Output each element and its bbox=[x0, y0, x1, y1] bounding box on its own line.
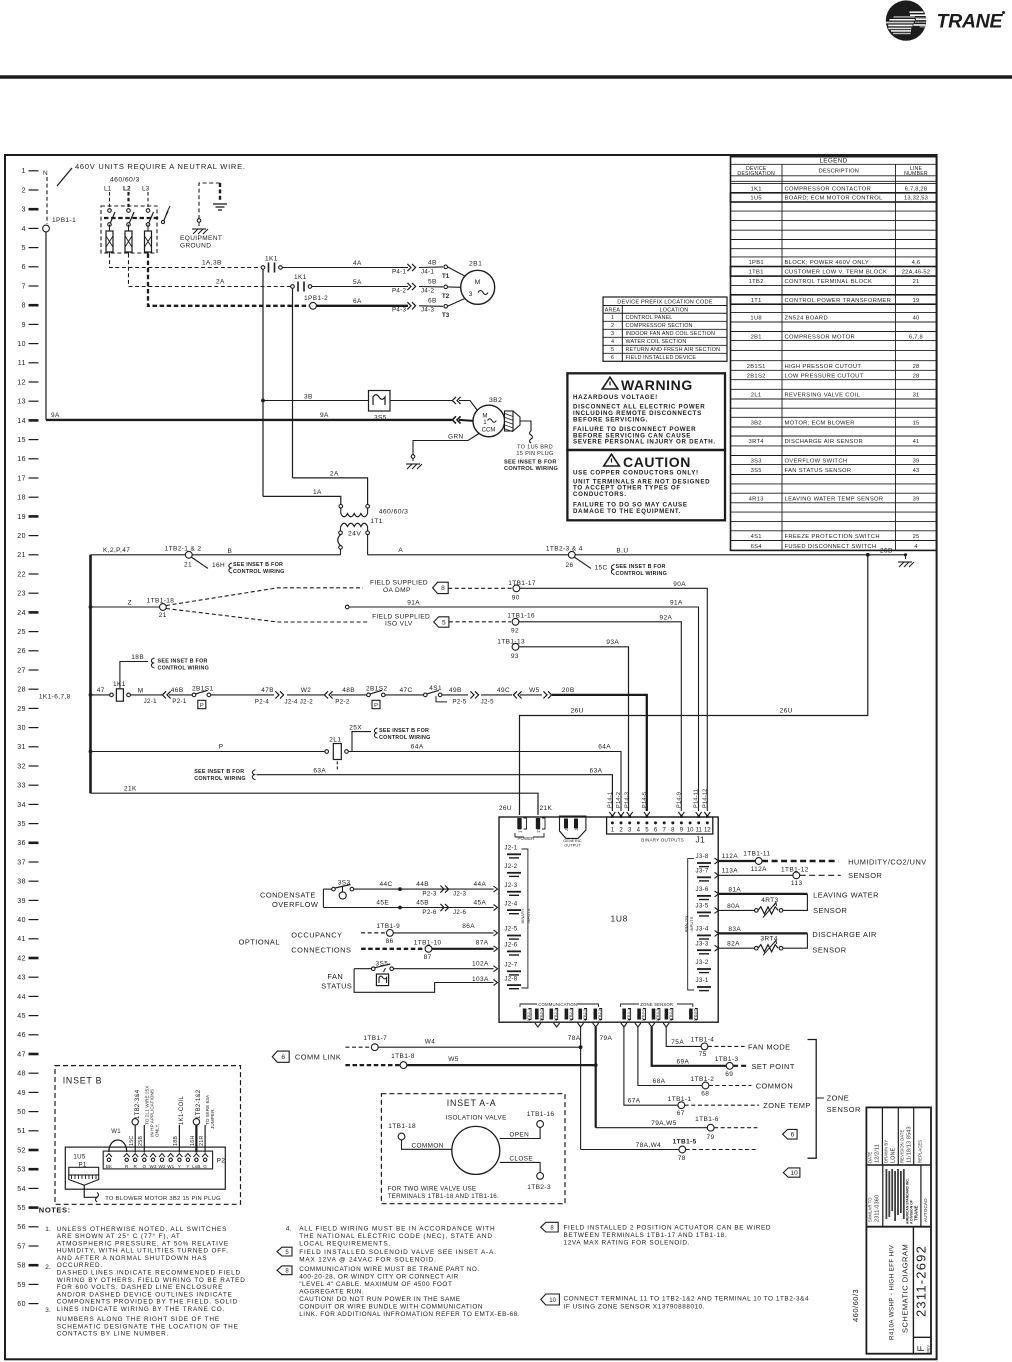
svg-text:INSET A-A: INSET A-A bbox=[447, 1098, 497, 1108]
svg-text:DRAWN BY: DRAWN BY bbox=[884, 1140, 889, 1163]
connector 1TB3-2 bbox=[637, 1009, 641, 1020]
svg-text:GROUND: GROUND bbox=[180, 243, 211, 250]
svg-text:B: B bbox=[228, 548, 233, 555]
svg-text:47: 47 bbox=[97, 687, 105, 694]
wire 18B to 1K1-COIL bbox=[178, 1125, 180, 1153]
svg-text:ISOLATION VALVE: ISOLATION VALVE bbox=[446, 1115, 507, 1122]
svg-text:1TB1-2: 1TB1-2 bbox=[518, 818, 523, 833]
svg-text:460/60/3: 460/60/3 bbox=[851, 1289, 860, 1322]
svg-text:41: 41 bbox=[17, 936, 26, 943]
svg-text:A DIVISION OF: A DIVISION OF bbox=[910, 1200, 914, 1224]
wire 91A bbox=[345, 605, 349, 609]
connector 1TB2-4 bbox=[565, 1009, 569, 1020]
svg-text:3S3: 3S3 bbox=[751, 458, 762, 464]
connector 1TB2-5 bbox=[578, 1009, 582, 1020]
svg-text:SEE INSET B FOR: SEE INSET B FOR bbox=[194, 769, 244, 775]
svg-text:J3-5: J3-5 bbox=[696, 903, 709, 910]
secondary breaker bbox=[338, 535, 341, 546]
svg-text:36: 36 bbox=[17, 840, 26, 847]
isolation valve circle bbox=[452, 1126, 500, 1174]
svg-text:87A: 87A bbox=[476, 939, 489, 946]
overflow switch 3S5 (blower) bbox=[369, 391, 391, 412]
inset A-A box bbox=[381, 1094, 565, 1204]
wire P bbox=[91, 751, 326, 753]
wire 103A to J2-8 bbox=[354, 969, 493, 993]
svg-text:SEVERE PERSONAL INJURY OR DEAT: SEVERE PERSONAL INJURY OR DEATH. bbox=[573, 439, 716, 446]
svg-text:TERMINALS 1TB1-18 AND 1TB1-16.: TERMINALS 1TB1-18 AND 1TB1-16. bbox=[388, 1193, 499, 1200]
junction 3B bbox=[261, 399, 265, 403]
svg-text:BK: BK bbox=[106, 1164, 113, 1169]
svg-text:5: 5 bbox=[22, 245, 26, 252]
svg-text:4: 4 bbox=[914, 544, 918, 550]
svg-text:LoB: LoB bbox=[192, 1164, 200, 1169]
svg-text:DESIGNATION: DESIGNATION bbox=[737, 171, 775, 177]
wire L1 bbox=[109, 192, 111, 207]
discharge air sensor 3RT4 bbox=[715, 930, 719, 936]
svg-text:44: 44 bbox=[17, 994, 26, 1001]
wire to blower plug bbox=[84, 1185, 97, 1197]
svg-text:10: 10 bbox=[687, 828, 694, 834]
svg-text:81A: 81A bbox=[728, 887, 741, 894]
linkage bbox=[104, 217, 160, 219]
svg-text:J3-4: J3-4 bbox=[696, 926, 709, 933]
svg-text:K,2,P,47: K,2,P,47 bbox=[103, 547, 130, 554]
svg-text:P14-2: P14-2 bbox=[616, 792, 622, 808]
svg-text:3B2: 3B2 bbox=[489, 397, 502, 404]
svg-text:DAMAGE TO THE EQUIPMENT.: DAMAGE TO THE EQUIPMENT. bbox=[573, 508, 681, 515]
wire 79A,W5 / 1TB1-6 bbox=[596, 1127, 708, 1129]
connector 1TB3-5 bbox=[689, 1009, 693, 1020]
svg-text:COMMUNICATION: COMMUNICATION bbox=[538, 1002, 577, 1007]
svg-text:BLOCK; POWER 460V ONLY: BLOCK; POWER 460V ONLY bbox=[785, 260, 870, 266]
svg-text:LOCAL REQUIREMENTS.: LOCAL REQUIREMENTS. bbox=[299, 1241, 391, 1248]
svg-text:P: P bbox=[219, 744, 224, 751]
svg-text:69A: 69A bbox=[677, 1058, 690, 1065]
svg-text:BINARY OUTPUTS: BINARY OUTPUTS bbox=[641, 838, 684, 843]
wire 79A vertical bbox=[595, 1027, 597, 1128]
svg-text:53: 53 bbox=[17, 1167, 26, 1174]
terminal 1TB1-9 / wire 86A to J2-5 bbox=[361, 932, 387, 934]
dashed from tag5 to 1TB1-16 bbox=[449, 621, 511, 623]
node to chassis bbox=[197, 219, 201, 223]
svg-text:J2-5: J2-5 bbox=[481, 699, 494, 706]
wire N dashed bbox=[46, 177, 48, 224]
thermistor 3RT4 bbox=[758, 945, 778, 952]
svg-text:25X: 25X bbox=[349, 724, 362, 731]
svg-text:BEFORE SERVICING.: BEFORE SERVICING. bbox=[573, 417, 648, 424]
svg-text:51: 51 bbox=[17, 1128, 26, 1135]
svg-text:WARNING: WARNING bbox=[621, 377, 693, 393]
svg-text:DISCHARGE AIR SENSOR: DISCHARGE AIR SENSOR bbox=[785, 439, 864, 445]
svg-text:12/2/11: 12/2/11 bbox=[875, 1144, 881, 1163]
svg-text:M: M bbox=[138, 687, 144, 694]
svg-text:12: 12 bbox=[704, 828, 711, 834]
svg-text:COMMON: COMMON bbox=[412, 1143, 444, 1150]
svg-text:INPUTS: INPUTS bbox=[689, 916, 694, 931]
svg-text:COMMUNICATION WIRE MUST BE TRA: COMMUNICATION WIRE MUST BE TRANE PART NO… bbox=[299, 1266, 480, 1273]
transformer 1T1 bbox=[339, 505, 343, 509]
svg-text:CONTROL WIRING: CONTROL WIRING bbox=[233, 569, 285, 575]
pin P14-1 bbox=[609, 812, 615, 816]
svg-text:19: 19 bbox=[913, 298, 920, 304]
svg-text:1TB2-2: 1TB2-2 bbox=[539, 1009, 543, 1022]
svg-text:4: 4 bbox=[611, 339, 614, 345]
connector 1TB2-3 bbox=[550, 1009, 554, 1020]
svg-text:2L1: 2L1 bbox=[329, 737, 341, 744]
svg-text:CONDUCTORS.: CONDUCTORS. bbox=[573, 491, 627, 498]
pin P14-11 bbox=[696, 812, 702, 816]
svg-text:HUMIDITY, WITH ALL UTILITIES T: HUMIDITY, WITH ALL UTILITIES TURNED OFF, bbox=[57, 1248, 229, 1255]
svg-text:P14-1: P14-1 bbox=[607, 792, 613, 808]
svg-text:1TB1-8: 1TB1-8 bbox=[391, 1053, 415, 1060]
svg-text:FIELD SUPPLIED: FIELD SUPPLIED bbox=[372, 613, 430, 620]
wire 68A / COMMON bbox=[638, 1027, 702, 1086]
svg-text:SEE INSET B FOR: SEE INSET B FOR bbox=[504, 460, 557, 466]
svg-text:21K: 21K bbox=[124, 786, 137, 793]
svg-text:45B: 45B bbox=[416, 900, 429, 907]
svg-text:102A: 102A bbox=[472, 961, 489, 968]
svg-text:1TB2-3 & 4: 1TB2-3 & 4 bbox=[546, 545, 583, 552]
svg-text:W2: W2 bbox=[301, 687, 312, 694]
svg-text:REVISION DATE: REVISION DATE bbox=[900, 1130, 905, 1163]
inset B box bbox=[55, 1066, 241, 1205]
svg-text:MAX 12VA @ 24VAC FOR SOLENOID.: MAX 12VA @ 24VAC FOR SOLENOID. bbox=[299, 1257, 437, 1264]
svg-text:1K1: 1K1 bbox=[265, 255, 278, 262]
svg-text:44A: 44A bbox=[474, 881, 487, 888]
svg-text:W1: W1 bbox=[167, 1164, 174, 1169]
svg-text:4.: 4. bbox=[286, 1225, 292, 1232]
svg-text:460/60/3: 460/60/3 bbox=[110, 177, 140, 184]
svg-text:67: 67 bbox=[677, 1110, 685, 1117]
svg-text:OVERFLOW: OVERFLOW bbox=[272, 900, 318, 909]
svg-text:DEVICE PREFIX LOCATION CODE: DEVICE PREFIX LOCATION CODE bbox=[617, 299, 713, 305]
svg-text:26: 26 bbox=[17, 648, 26, 655]
svg-text:OVERFLOW SWITCH: OVERFLOW SWITCH bbox=[785, 458, 848, 464]
svg-text:1PB1: 1PB1 bbox=[749, 260, 764, 266]
svg-text:AREA: AREA bbox=[605, 308, 621, 314]
svg-text:112A: 112A bbox=[751, 866, 768, 873]
connector 1TB3-3 bbox=[652, 1009, 656, 1020]
wire 1A,3B bbox=[110, 254, 262, 268]
svg-text:P14-3: P14-3 bbox=[625, 792, 631, 808]
svg-text:49C: 49C bbox=[497, 687, 510, 694]
svg-text:P4-2: P4-2 bbox=[392, 287, 407, 294]
wire L3 bbox=[147, 192, 149, 207]
svg-text:SENSOR: SENSOR bbox=[813, 906, 847, 915]
svg-text:1TB2-6: 1TB2-6 bbox=[598, 1009, 602, 1022]
wire 49B bbox=[442, 694, 468, 696]
svg-text:DESCRIPTION: DESCRIPTION bbox=[819, 169, 859, 175]
svg-text:REVERSING VALVE COIL: REVERSING VALVE COIL bbox=[785, 392, 861, 398]
svg-text:1PB1-1: 1PB1-1 bbox=[52, 217, 76, 224]
svg-text:HAZARDOUS VOLTAGE!: HAZARDOUS VOLTAGE! bbox=[573, 394, 658, 401]
svg-text:W3: W3 bbox=[150, 1164, 157, 1169]
svg-text:1PB1-2: 1PB1-2 bbox=[304, 295, 328, 302]
svg-text:37: 37 bbox=[17, 859, 26, 866]
wire 1A bbox=[263, 496, 341, 504]
svg-text:LOCATION: LOCATION bbox=[660, 308, 689, 314]
svg-text:15C: 15C bbox=[595, 565, 608, 572]
plug P4-2/J4-2 bbox=[407, 283, 411, 290]
svg-text:1K1-COIL: 1K1-COIL bbox=[179, 1096, 185, 1125]
svg-text:26U: 26U bbox=[499, 805, 512, 812]
wire 5A bbox=[312, 286, 408, 288]
svg-text:14: 14 bbox=[17, 418, 26, 425]
note tag 8 bbox=[277, 1266, 292, 1275]
svg-text:3: 3 bbox=[22, 207, 26, 214]
legend table bbox=[731, 157, 937, 551]
svg-text:20B: 20B bbox=[562, 687, 575, 694]
wire K,2,P,47 line21 bbox=[91, 554, 341, 556]
svg-text:45E: 45E bbox=[376, 900, 389, 907]
svg-text:COMM LINK: COMM LINK bbox=[295, 1053, 341, 1062]
svg-text:1: 1 bbox=[483, 419, 487, 426]
svg-text:J4-2: J4-2 bbox=[421, 287, 434, 294]
svg-text:31: 31 bbox=[913, 392, 920, 398]
svg-text:1TB1-2: 1TB1-2 bbox=[691, 1076, 715, 1083]
svg-text:4: 4 bbox=[22, 226, 26, 233]
svg-text:Y: Y bbox=[186, 1164, 189, 1169]
svg-text:CONTROL TERMINAL BLOCK: CONTROL TERMINAL BLOCK bbox=[785, 279, 873, 285]
svg-text:78A: 78A bbox=[568, 1035, 581, 1042]
tag 8 bbox=[433, 582, 449, 593]
svg-text:29: 29 bbox=[17, 706, 26, 713]
svg-text:78A,W4: 78A,W4 bbox=[636, 1142, 662, 1149]
svg-text:SEE INSET B FOR: SEE INSET B FOR bbox=[158, 658, 208, 664]
svg-text:2: 2 bbox=[611, 323, 614, 329]
svg-text:FIELD INSTALLED 2 POSITION ACT: FIELD INSTALLED 2 POSITION ACTUATOR CAN … bbox=[564, 1224, 772, 1231]
svg-text:1U8: 1U8 bbox=[611, 914, 628, 924]
svg-text:ZONE TEMP: ZONE TEMP bbox=[763, 1101, 810, 1110]
svg-text:BOARD; ECM MOTOR CONTROL: BOARD; ECM MOTOR CONTROL bbox=[785, 196, 884, 202]
svg-text:27: 27 bbox=[17, 667, 26, 674]
svg-text:ZONE: ZONE bbox=[827, 1094, 850, 1103]
tag 5 bbox=[434, 617, 449, 627]
wire 25B bbox=[143, 1125, 145, 1153]
junction P bbox=[89, 750, 93, 754]
board 1U8 outline bbox=[499, 817, 718, 1022]
svg-text:POWER: POWER bbox=[518, 836, 535, 841]
svg-text:1TB1-16: 1TB1-16 bbox=[527, 1111, 555, 1118]
svg-text:INSET B: INSET B bbox=[63, 1076, 103, 1086]
svg-text:112A: 112A bbox=[722, 853, 739, 860]
svg-text:91A: 91A bbox=[670, 599, 683, 606]
svg-text:23: 23 bbox=[17, 591, 26, 598]
wire Z bbox=[91, 606, 160, 608]
svg-text:56: 56 bbox=[17, 1224, 26, 1231]
wire 69A / SET POINT bbox=[652, 1027, 727, 1066]
svg-text:21: 21 bbox=[913, 279, 920, 285]
svg-text:6: 6 bbox=[22, 264, 26, 271]
callout 16H bbox=[191, 557, 208, 568]
svg-text:59: 59 bbox=[17, 1282, 26, 1289]
svg-text:1TB1-9: 1TB1-9 bbox=[376, 923, 400, 930]
svg-text:92: 92 bbox=[511, 628, 519, 635]
svg-text:1TB1-1: 1TB1-1 bbox=[536, 818, 541, 833]
svg-text:3.: 3. bbox=[45, 1307, 51, 1314]
svg-text:L3: L3 bbox=[142, 186, 150, 193]
svg-text:FAN: FAN bbox=[327, 972, 343, 981]
wire 15C to 1TB2-3&4 bbox=[134, 1125, 136, 1153]
svg-text:18B: 18B bbox=[131, 654, 144, 661]
pin P14-9 bbox=[678, 812, 684, 816]
svg-text:1.: 1. bbox=[45, 1226, 51, 1233]
svg-text:1U5: 1U5 bbox=[750, 196, 762, 202]
svg-text:P: P bbox=[200, 703, 204, 709]
svg-text:CONTROL WIRING: CONTROL WIRING bbox=[158, 665, 210, 671]
note tag 10 right bbox=[541, 1294, 560, 1305]
svg-text:1U5: 1U5 bbox=[73, 1154, 86, 1161]
switch pole 1 bbox=[108, 209, 112, 213]
svg-text:26U: 26U bbox=[780, 708, 793, 715]
svg-text:47C: 47C bbox=[400, 687, 413, 694]
svg-text:3RT4: 3RT4 bbox=[749, 439, 765, 445]
svg-text:25: 25 bbox=[913, 534, 920, 540]
svg-text:15 PIN PLUG: 15 PIN PLUG bbox=[516, 451, 553, 457]
svg-text:67A: 67A bbox=[628, 1098, 641, 1105]
svg-text:J2-1: J2-1 bbox=[504, 845, 517, 852]
P2 strip bbox=[103, 1151, 212, 1169]
svg-text:13: 13 bbox=[17, 399, 26, 406]
svg-text:4A: 4A bbox=[353, 260, 362, 267]
pin P14-5 bbox=[644, 812, 650, 816]
wire W4 bbox=[345, 1046, 371, 1048]
svg-text:31: 31 bbox=[17, 744, 26, 751]
svg-text:1A,3B: 1A,3B bbox=[202, 259, 222, 266]
svg-text:DISCHARGE AIR: DISCHARGE AIR bbox=[812, 930, 876, 939]
svg-text:49B: 49B bbox=[449, 687, 462, 694]
svg-text:3: 3 bbox=[469, 291, 473, 298]
disconnect switch 6S4 enclosure bbox=[101, 206, 157, 253]
svg-text:CONDENSATE: CONDENSATE bbox=[260, 891, 316, 900]
svg-text:16: 16 bbox=[17, 456, 26, 463]
svg-text:COMPRESSOR SECTION: COMPRESSOR SECTION bbox=[626, 323, 693, 329]
svg-text:12VA MAX RATING FOR SOLENOID.: 12VA MAX RATING FOR SOLENOID. bbox=[564, 1240, 691, 1247]
svg-text:24: 24 bbox=[17, 610, 26, 617]
svg-text:THE NATIONAL ELECTRIC CODE (NE: THE NATIONAL ELECTRIC CODE (NEC), STATE … bbox=[299, 1233, 493, 1240]
svg-text:4,6: 4,6 bbox=[912, 260, 921, 266]
svg-text:J3-2: J3-2 bbox=[696, 959, 709, 966]
svg-text:92A: 92A bbox=[660, 614, 673, 621]
svg-text:FOR TWO WIRE VALVE USE: FOR TWO WIRE VALVE USE bbox=[388, 1186, 477, 1193]
svg-text:46: 46 bbox=[17, 1032, 26, 1039]
svg-text:2311-0360: 2311-0360 bbox=[875, 1195, 881, 1222]
connector 1TB2-1 bbox=[523, 1009, 527, 1020]
svg-text:LOW PRESSURE CUTOUT: LOW PRESSURE CUTOUT bbox=[785, 373, 864, 379]
svg-text:68A: 68A bbox=[653, 1078, 666, 1085]
dashed from tag8 to 1TB1-17 bbox=[448, 587, 512, 589]
connector 1TB2-2 bbox=[535, 1009, 539, 1020]
svg-text:2B1S2: 2B1S2 bbox=[747, 373, 766, 379]
svg-text:58: 58 bbox=[17, 1263, 26, 1270]
svg-text:ALL FIELD WIRING MUST BE IN AC: ALL FIELD WIRING MUST BE IN ACCORDANCE W… bbox=[299, 1225, 495, 1232]
svg-text:3B2: 3B2 bbox=[751, 420, 762, 426]
POWER connectors 1TB1-2 / 1TB1-1 bbox=[517, 818, 521, 829]
svg-text:22: 22 bbox=[17, 571, 26, 578]
svg-text:CUSTOMER LOW V. TERM BLOCK: CUSTOMER LOW V. TERM BLOCK bbox=[785, 270, 888, 276]
svg-text:CONTROL POWER TRANSFORMER: CONTROL POWER TRANSFORMER bbox=[785, 298, 892, 304]
svg-text:6B: 6B bbox=[428, 298, 437, 305]
svg-text:25B: 25B bbox=[138, 1136, 144, 1146]
svg-text:1TB1-18: 1TB1-18 bbox=[147, 597, 175, 604]
15-pin plug bbox=[505, 411, 514, 431]
wire 93A bbox=[519, 647, 629, 811]
svg-text:16H: 16H bbox=[190, 1136, 196, 1147]
svg-text:OPEN: OPEN bbox=[509, 1132, 529, 1139]
svg-text:CCM: CCM bbox=[482, 428, 496, 434]
svg-text:1TB1-6: 1TB1-6 bbox=[695, 1116, 719, 1123]
svg-text:55: 55 bbox=[17, 1205, 26, 1212]
caution box bbox=[567, 450, 725, 520]
svg-text:1TB1: 1TB1 bbox=[749, 270, 764, 276]
svg-text:FAN MODE: FAN MODE bbox=[748, 1042, 791, 1051]
svg-text:1TB2-1&2: 1TB2-1&2 bbox=[196, 1089, 202, 1119]
svg-text:F: F bbox=[916, 1346, 927, 1352]
device prefix location code table bbox=[603, 297, 727, 361]
header rule bbox=[0, 75, 1012, 78]
svg-text:18B: 18B bbox=[173, 1136, 179, 1146]
svg-text:6,7,8: 6,7,8 bbox=[909, 334, 923, 340]
svg-text:A: A bbox=[398, 547, 403, 554]
svg-text:6,7,8,28: 6,7,8,28 bbox=[905, 186, 928, 192]
svg-text:39: 39 bbox=[913, 458, 920, 464]
svg-text:G: G bbox=[203, 1164, 207, 1169]
svg-text:4S1: 4S1 bbox=[751, 534, 762, 540]
svg-text:SET POINT: SET POINT bbox=[752, 1062, 795, 1071]
svg-text:CONNECT TERMINAL 11 TO 1TB2-1&: CONNECT TERMINAL 11 TO 1TB2-1&2 AND TERM… bbox=[564, 1295, 810, 1302]
svg-text:FUSED DISCONNECT SWITCH: FUSED DISCONNECT SWITCH bbox=[785, 544, 877, 550]
svg-text:1TB1-16: 1TB1-16 bbox=[507, 613, 535, 620]
svg-text:AND/OR DASHED DEVICE OUTLINES: AND/OR DASHED DEVICE OUTLINES INDICATE bbox=[57, 1291, 233, 1298]
wire A line21 bbox=[368, 554, 906, 556]
svg-text:LINES INDICATE WIRING BY THE T: LINES INDICATE WIRING BY THE TRANE CO. bbox=[57, 1306, 226, 1313]
svg-text:IF USING ZONE SENSOR X13790888: IF USING ZONE SENSOR X13790888010. bbox=[564, 1303, 706, 1310]
svg-text:J2-8: J2-8 bbox=[504, 975, 517, 982]
svg-text:AND AFTER A NORMAL SHUTDOWN HA: AND AFTER A NORMAL SHUTDOWN HAS bbox=[57, 1255, 208, 1262]
svg-text:28: 28 bbox=[913, 373, 920, 379]
terminal T2 bbox=[444, 285, 448, 289]
svg-text:1: 1 bbox=[611, 315, 614, 321]
title block bbox=[866, 1107, 931, 1353]
svg-text:48: 48 bbox=[17, 1071, 26, 1078]
svg-text:STATUS: STATUS bbox=[321, 982, 352, 991]
svg-text:N: N bbox=[43, 170, 48, 177]
svg-text:MOTOR; ECM BLOWER: MOTOR; ECM BLOWER bbox=[785, 420, 855, 426]
svg-text:J2-2: J2-2 bbox=[504, 863, 517, 870]
dashed to ISO VLV bbox=[166, 609, 368, 623]
svg-text:83A: 83A bbox=[728, 926, 741, 933]
svg-text:26U: 26U bbox=[571, 708, 584, 715]
svg-text:J2-4 J2-2: J2-4 J2-2 bbox=[285, 699, 314, 706]
svg-text:1TB3-1: 1TB3-1 bbox=[627, 1009, 631, 1022]
svg-text:HIGH PRESSOR CUTOUT: HIGH PRESSOR CUTOUT bbox=[785, 364, 862, 370]
svg-text:RETURN AND FRESH AIR SECTION: RETURN AND FRESH AIR SECTION bbox=[626, 347, 721, 353]
wire 78A,W4 / 1TB1-5 bbox=[581, 1149, 679, 1151]
svg-text:LEAVING WATER TEMP SENSOR: LEAVING WATER TEMP SENSOR bbox=[785, 496, 884, 502]
svg-text:LINK. FOR ADDITIONAL INFROMATI: LINK. FOR ADDITIONAL INFROMATION REFER T… bbox=[299, 1311, 520, 1318]
svg-text:44C: 44C bbox=[380, 881, 393, 888]
svg-text:ONLY.: ONLY. bbox=[155, 1124, 160, 1137]
svg-text:86: 86 bbox=[386, 938, 394, 945]
svg-text:1TB2-3: 1TB2-3 bbox=[554, 1009, 558, 1022]
svg-text:T1: T1 bbox=[442, 273, 450, 280]
svg-text:400-20-28, OR WINDY CITY OR CO: 400-20-28, OR WINDY CITY OR CONNECT AIR bbox=[299, 1274, 459, 1281]
svg-text:LEAVING WATER: LEAVING WATER bbox=[813, 891, 879, 900]
svg-text:60: 60 bbox=[17, 1301, 26, 1308]
svg-text:79: 79 bbox=[707, 1134, 715, 1141]
svg-text:ISO VLV: ISO VLV bbox=[385, 621, 413, 628]
svg-text:J4-1: J4-1 bbox=[574, 822, 579, 831]
